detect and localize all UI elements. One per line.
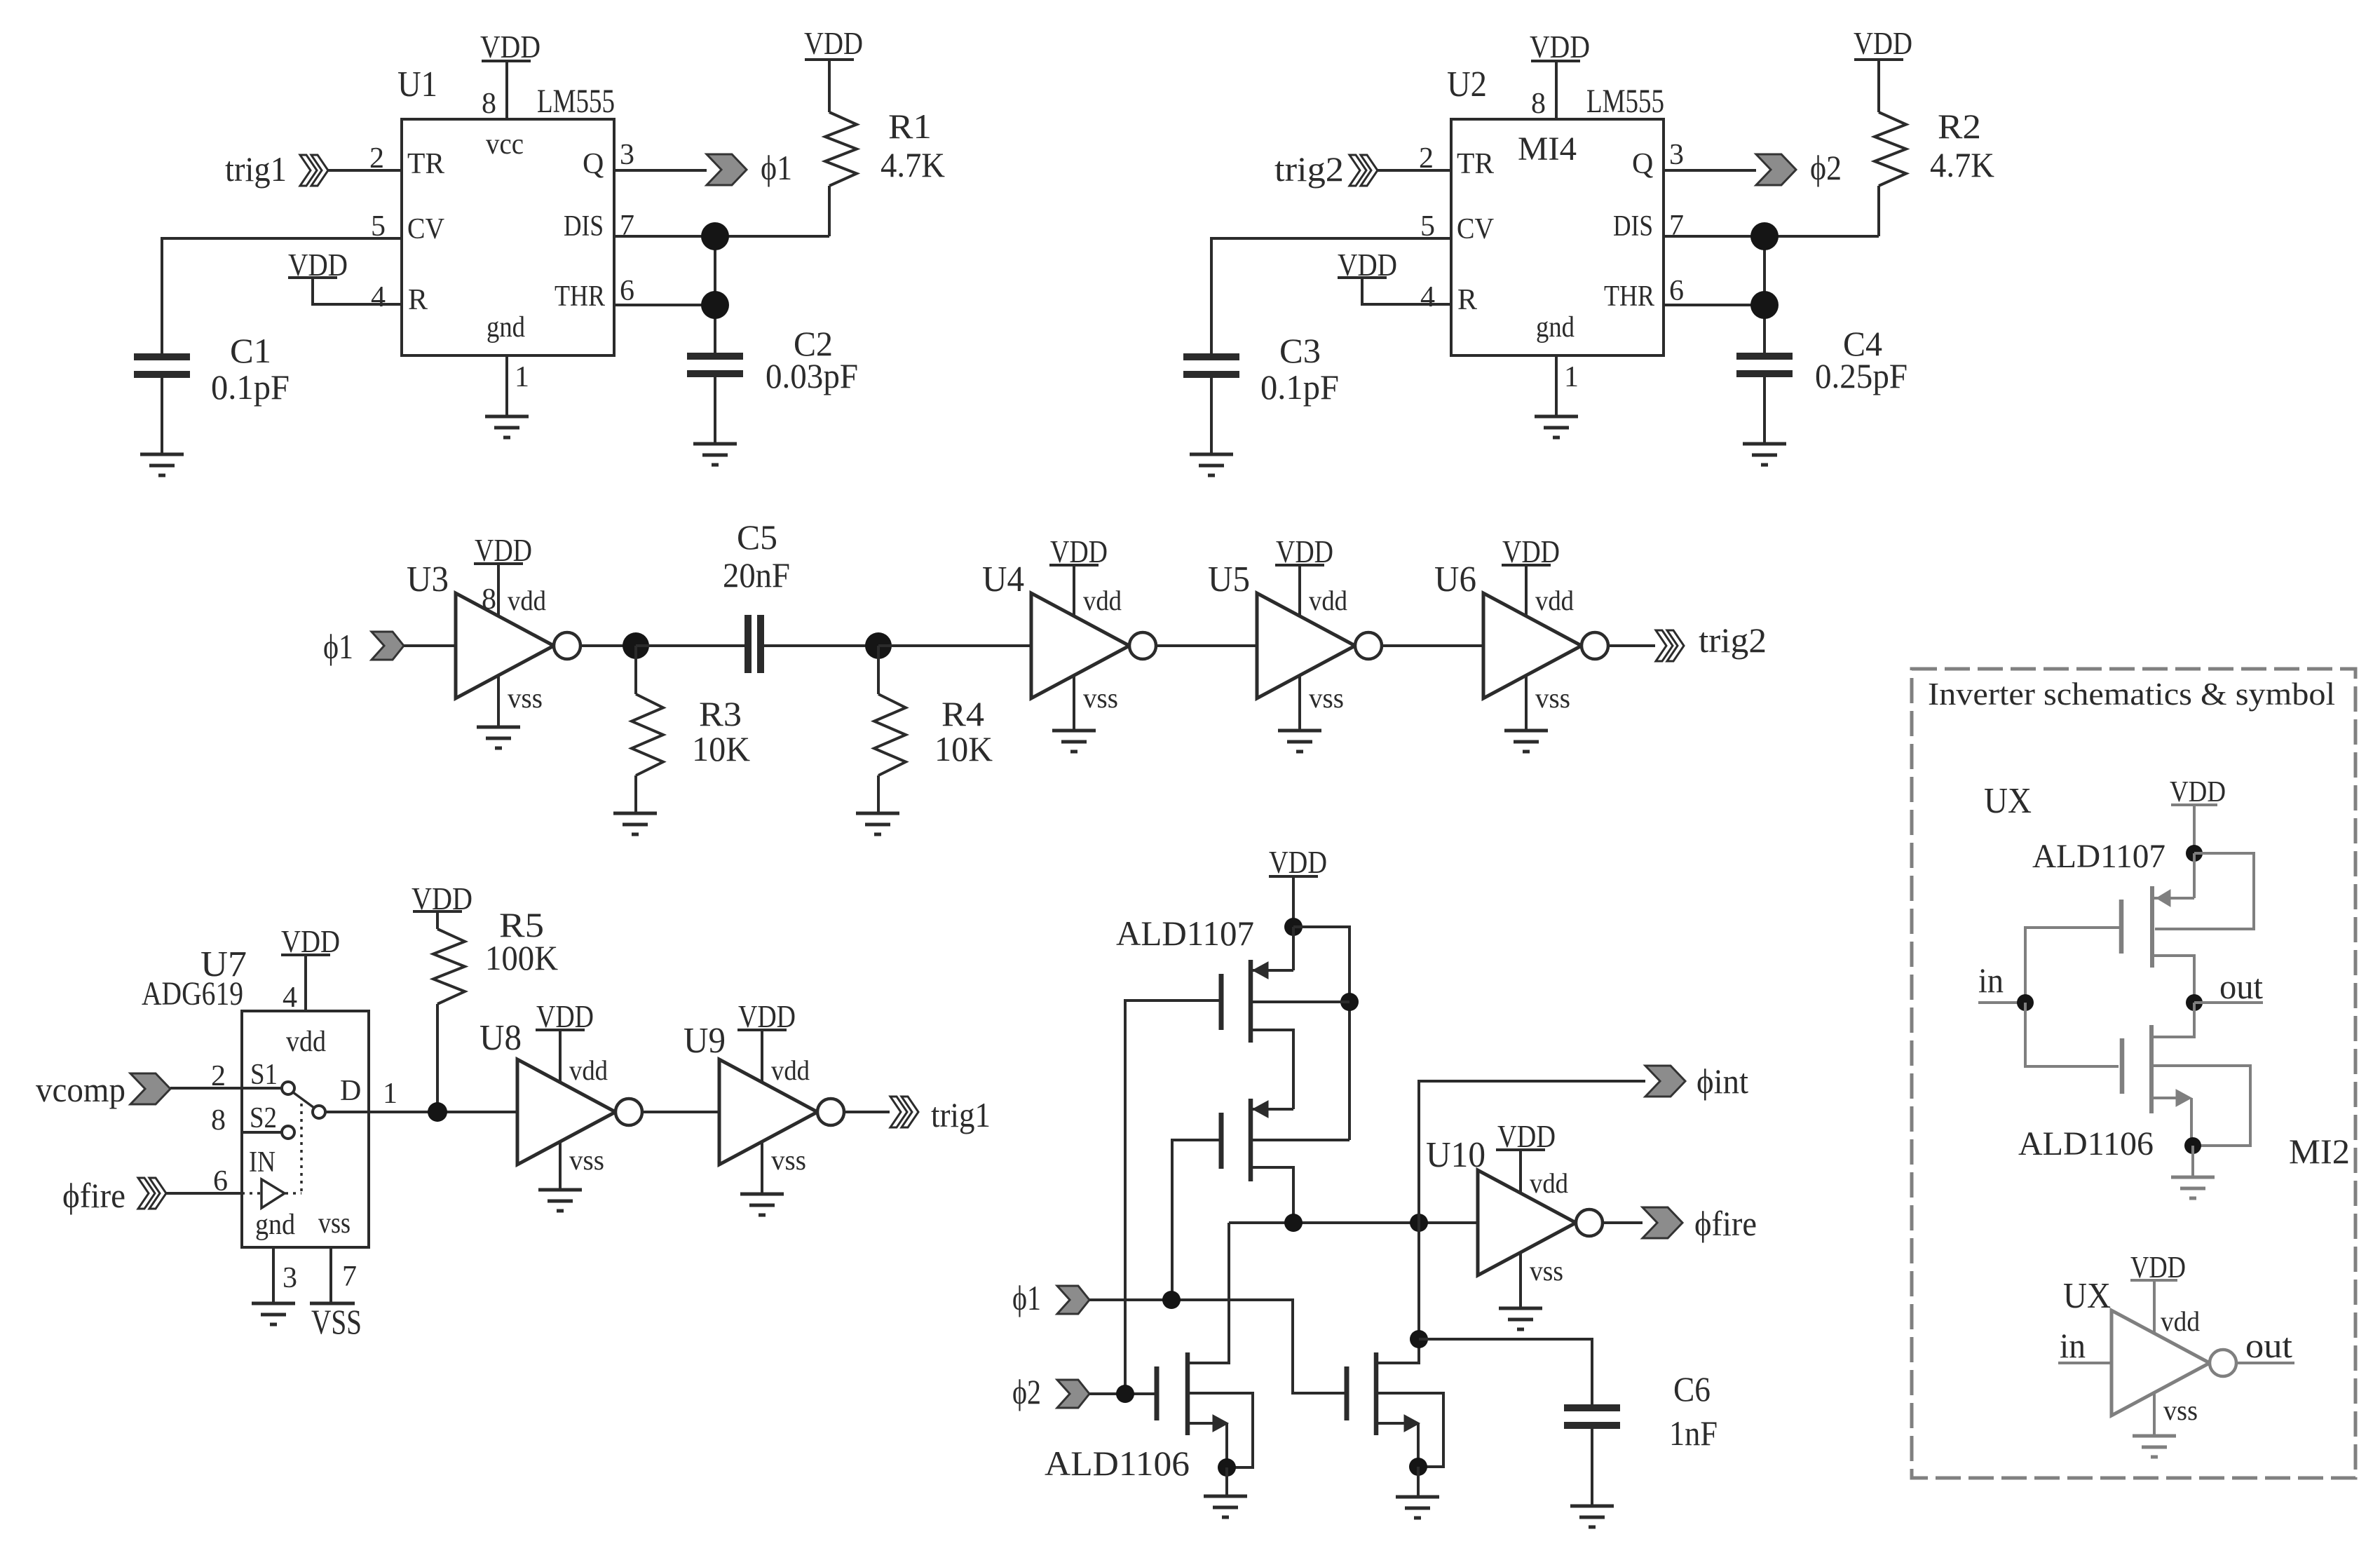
wire D pin 1 to U8 [325, 1111, 517, 1113]
port phifire input chevron [138, 1178, 166, 1209]
wire vss pin (U4) [1073, 675, 1075, 731]
label LM555 [537, 83, 615, 120]
power VDD (U9) [737, 998, 796, 1034]
label ALD1106 [1045, 1444, 1190, 1483]
svg-text:R2: R2 [1938, 107, 1981, 146]
inverter U4 [1031, 593, 1156, 698]
label ALD1107 [1116, 914, 1254, 953]
pin number 8 [1531, 88, 1546, 120]
wire C2 to ground [714, 377, 716, 444]
capacitor C5 [748, 615, 761, 673]
svg-text:VDD: VDD [1276, 534, 1333, 569]
transistor M2 gate bar [1219, 1113, 1224, 1169]
svg-text:8: 8 [482, 88, 496, 120]
pin number 2 [211, 1060, 226, 1092]
svg-text:U9: U9 [684, 1021, 726, 1061]
transistor M1 ALD1107 channel [1249, 960, 1253, 1043]
wire vdd pin (UX symbol) [2153, 1280, 2156, 1334]
wire U7 vss pin 7 [329, 1247, 332, 1302]
svg-text:C3: C3 [1279, 331, 1321, 370]
port vcomp input arrow [130, 1073, 170, 1104]
wire VDD node to bulk rail [1293, 927, 1349, 1140]
wire THR pin 6 [614, 304, 715, 306]
svg-text:1: 1 [1564, 361, 1579, 393]
ground (U8) [538, 1190, 582, 1211]
wire in (symbol) [2058, 1362, 2112, 1364]
svg-text:ϕfire: ϕfire [1694, 1204, 1757, 1243]
wire C3 to ground [1210, 374, 1213, 454]
transistor M2 source lead [1253, 1101, 1293, 1118]
transistor M1 bulk lead [1253, 1000, 1349, 1003]
svg-text:1: 1 [515, 361, 529, 393]
svg-text:vdd: vdd [569, 1054, 608, 1086]
svg-text:vss: vss [1309, 682, 1344, 714]
wire in [1978, 1001, 2025, 1004]
port trig1 input chevron [300, 155, 328, 186]
label MI2 [2289, 1132, 2350, 1171]
ground UX schematic [2171, 1177, 2215, 1198]
wire out [2194, 1001, 2263, 1004]
ground (U9) [740, 1194, 784, 1215]
capacitor C4 [1736, 352, 1793, 374]
IC U2 LM555 box [1451, 119, 1664, 355]
pin name vdd (symbol) [2161, 1305, 2200, 1337]
transistor UX-N gate bar [2120, 1038, 2125, 1094]
svg-text:VDD: VDD [281, 923, 340, 959]
pin name IN [249, 1146, 276, 1179]
pin number 8 [482, 583, 496, 616]
pin number 3 [283, 1262, 297, 1294]
svg-text:VDD: VDD [1338, 247, 1397, 283]
svg-text:trig2: trig2 [1274, 149, 1344, 189]
svg-text:VDD: VDD [412, 881, 472, 916]
wire vss pin (U8) [559, 1141, 562, 1190]
pin number 4 [283, 982, 297, 1014]
svg-text:Q: Q [583, 148, 604, 180]
transistor M2 drain lead [1253, 1167, 1293, 1223]
label C1 [230, 331, 271, 370]
inverter U10 [1478, 1170, 1603, 1275]
svg-text:C6: C6 [1673, 1369, 1711, 1409]
ground U7 pin 3 [252, 1303, 295, 1324]
svg-text:ALD1107: ALD1107 [2032, 838, 2165, 875]
port &#981;1 output arrow [707, 154, 747, 185]
svg-text:7: 7 [342, 1261, 357, 1293]
junction node VDD [1284, 918, 1303, 936]
svg-text:CV: CV [1457, 213, 1494, 245]
junction node out UX [2186, 994, 2203, 1011]
value R3 10K [692, 729, 750, 768]
ground (U3) [477, 727, 520, 748]
wire DIS pin 7 to R1 branch [1664, 235, 1879, 238]
net label trig2 (output) [1699, 620, 1767, 660]
label R4 [941, 694, 984, 733]
value 4.7K [880, 145, 945, 184]
wire trig to TR pin 2 [328, 169, 402, 172]
net label trig1 (output) [931, 1095, 991, 1134]
svg-text:2: 2 [369, 142, 384, 175]
svg-text:VDD: VDD [2170, 776, 2226, 808]
power VDD (U3) [474, 532, 532, 568]
svg-text:vss: vss [1530, 1255, 1563, 1287]
junction node phi2-gate [1116, 1385, 1134, 1403]
value 0.1pF [1260, 367, 1339, 407]
label VSS [311, 1302, 362, 1341]
svg-text:in: in [2060, 1326, 2086, 1365]
wire U10 to phifire port [1603, 1221, 1643, 1224]
wire DIS pin 7 to R1 branch [614, 235, 829, 238]
label R2 [1938, 107, 1981, 146]
inverter U5 [1257, 593, 1382, 698]
svg-text:ADG619: ADG619 [142, 975, 243, 1012]
pin number 1 [515, 361, 529, 393]
svg-text:U1: U1 [397, 65, 437, 104]
junction node D-R5 [428, 1102, 447, 1122]
junction node THR [1750, 291, 1779, 319]
transistor M1 drain lead [1253, 1030, 1293, 1109]
pin name vdd (U9) [771, 1054, 810, 1086]
label R3 [699, 694, 742, 733]
switch lever [293, 1092, 314, 1108]
svg-text:ϕint: ϕint [1696, 1061, 1748, 1101]
svg-text:0.25pF: 0.25pF [1815, 356, 1908, 395]
ground under R4 [856, 813, 899, 834]
svg-text:ϕfire: ϕfire [62, 1176, 125, 1215]
port trig2 input chevron [1349, 155, 1378, 186]
net label vcomp [36, 1070, 125, 1109]
power VDD (charge pump) [1269, 844, 1327, 880]
svg-text:U6: U6 [1434, 559, 1476, 599]
svg-text:U5: U5 [1208, 559, 1250, 599]
junction node B [865, 632, 892, 659]
power VDD (U7 pin 4) [281, 923, 340, 959]
switch contact S1 [282, 1082, 294, 1094]
wire VDD to U7 vdd [304, 955, 307, 1011]
pin number 5 [1420, 210, 1435, 243]
wire UX-N to ground [2191, 1146, 2194, 1177]
label R5 [499, 905, 544, 944]
svg-text:10K: 10K [692, 729, 750, 768]
svg-text:vdd: vdd [771, 1054, 810, 1086]
wire phi2 line [1089, 1392, 1155, 1395]
svg-text:8: 8 [211, 1104, 226, 1137]
resistor R3 [632, 646, 663, 813]
label U5 [1208, 559, 1250, 599]
svg-text:DIS: DIS [564, 210, 604, 243]
resistor R4 [874, 646, 906, 813]
svg-text:LM555: LM555 [1586, 83, 1664, 120]
wire U9 to trig1 port [844, 1111, 890, 1113]
label U9 [684, 1021, 726, 1061]
transistor UX-N bulk lead [2154, 1090, 2191, 1146]
inverter U3 [456, 593, 580, 698]
IC U1 LM555 box [402, 119, 614, 355]
pin number 7 [342, 1261, 357, 1293]
label C3 [1279, 331, 1321, 370]
wire node A to C5 [636, 644, 744, 647]
port phi2 input arrow (pump) [1057, 1380, 1089, 1408]
port &#981;2 output arrow [1756, 154, 1796, 185]
wire in to N gate [2025, 1003, 2119, 1066]
svg-text:vdd: vdd [508, 585, 546, 616]
pin name DIS [564, 210, 604, 243]
svg-text:R4: R4 [941, 694, 984, 733]
svg-text:VDD: VDD [536, 998, 594, 1034]
power VDD (pin 8 U1) [480, 29, 540, 65]
label U10 [1426, 1135, 1485, 1175]
capacitor C6 [1564, 1408, 1620, 1425]
wire DIS-THR junction to cap [1763, 236, 1766, 352]
svg-text:ALD1107: ALD1107 [1116, 914, 1254, 953]
value 4.7K [1930, 145, 1994, 184]
pin name vss (U7) [318, 1207, 351, 1240]
wire CV pin 5 [1211, 238, 1451, 353]
net label in (symbol) [2060, 1326, 2086, 1365]
value 0.25pF [1815, 356, 1908, 395]
svg-text:out: out [2245, 1326, 2292, 1365]
svg-text:vcomp: vcomp [36, 1070, 125, 1109]
pin name vdd (U7) [286, 1026, 326, 1058]
pin name vss (symbol) [2163, 1395, 2198, 1426]
svg-text:vss: vss [569, 1144, 604, 1176]
svg-text:0.1pF: 0.1pF [211, 367, 290, 407]
junction node out-tap [1410, 1214, 1428, 1232]
wire U7 gnd pin 3 [272, 1247, 275, 1303]
transistor UX-P drain lead [2154, 956, 2194, 1003]
pin name vss (U10) [1530, 1255, 1563, 1287]
pin name TR [1457, 148, 1494, 180]
svg-text:100K: 100K [485, 938, 558, 977]
wire M1 gate [1125, 1000, 1221, 1394]
ground under C2 [693, 444, 737, 465]
svg-text:D: D [340, 1075, 361, 1107]
pin number 3 [1669, 139, 1684, 171]
IC U7 ADG619 box [242, 1011, 369, 1247]
wire bulk rail UX [2155, 853, 2254, 929]
pin name vss (U4) [1083, 682, 1118, 714]
label C6 [1673, 1369, 1711, 1409]
power bar VDD (UX symbol) [2130, 1279, 2177, 1282]
svg-text:TR: TR [407, 148, 444, 180]
power VDD (U10) [1496, 1118, 1556, 1154]
wire vss pin (U9) [761, 1141, 763, 1194]
svg-text:2: 2 [211, 1060, 226, 1092]
pin number 4 [1420, 281, 1435, 313]
wire M2 gate [1172, 1140, 1221, 1300]
value 0.03pF [766, 356, 858, 395]
svg-text:vdd: vdd [1309, 585, 1347, 616]
net label out (schematic) [2219, 967, 2263, 1006]
svg-text:in: in [1978, 961, 2004, 1000]
ground under C4 [1743, 444, 1786, 465]
svg-text:ϕ1: ϕ1 [323, 627, 353, 666]
junction node in [2017, 994, 2034, 1011]
wire gnd pin 1 [1555, 355, 1558, 416]
transistor UX-N drain lead [2154, 1003, 2194, 1037]
junction node UX-N bulk [2184, 1137, 2201, 1154]
svg-text:0.1pF: 0.1pF [1260, 367, 1339, 407]
driver triangle IN [261, 1179, 285, 1208]
power VDD (R5) [412, 881, 472, 916]
ground UX symbol [2133, 1436, 2176, 1457]
svg-text:VDD: VDD [1502, 534, 1560, 569]
svg-text:MI4: MI4 [1518, 130, 1577, 168]
transistor M4 source lead [1378, 1393, 1443, 1467]
pin name vss (U5) [1309, 682, 1344, 714]
pin name vss (U8) [569, 1144, 604, 1176]
wire node to NMOS M3 drain [1190, 1223, 1229, 1363]
pin number 7 [620, 210, 634, 242]
power VDD (U6) [1502, 534, 1560, 569]
svg-text:ϕ1: ϕ1 [761, 148, 792, 187]
pin name gnd [1536, 311, 1575, 344]
title Inverter schematics & symbol [1928, 676, 2335, 712]
svg-text:S2: S2 [250, 1102, 277, 1134]
svg-text:2: 2 [1419, 142, 1434, 175]
svg-text:ALD1106: ALD1106 [1045, 1444, 1190, 1483]
port phi1 input arrow (pump) [1057, 1286, 1089, 1314]
net label in (schematic) [1978, 961, 2004, 1000]
svg-text:CV: CV [407, 213, 444, 245]
pin number 3 [620, 139, 634, 171]
pin name Q [583, 148, 604, 180]
svg-text:ALD1106: ALD1106 [2018, 1125, 2154, 1162]
wire C6 tap [1419, 1339, 1592, 1404]
wire vdd pin (U10) [1519, 1150, 1522, 1193]
transistor M1 source lead [1253, 927, 1293, 979]
svg-text:VDD: VDD [288, 247, 348, 283]
junction node DIS [701, 222, 729, 250]
pin number 6 [1669, 275, 1684, 307]
svg-text:3: 3 [1669, 139, 1684, 171]
dotted link IN left [242, 1192, 260, 1195]
svg-text:4.7K: 4.7K [880, 145, 945, 184]
pin name vdd (U4) [1083, 585, 1122, 616]
wire vdd pin (U3) [497, 564, 500, 616]
inverter U9 [719, 1059, 844, 1165]
power VSS bar [310, 1302, 355, 1305]
pin name gnd (U7) [255, 1209, 295, 1241]
svg-text:6: 6 [620, 275, 634, 307]
svg-text:20nF: 20nF [723, 555, 790, 595]
svg-text:R3: R3 [699, 694, 742, 733]
value R4 10K [934, 729, 993, 768]
wire U8 to U9 [642, 1111, 719, 1113]
junction node VDD UX [2186, 845, 2203, 862]
svg-text:3: 3 [283, 1262, 297, 1294]
svg-text:3: 3 [620, 139, 634, 171]
transistor M4 drain lead [1378, 1223, 1419, 1363]
capacitor C2 [687, 352, 743, 374]
label MI4 [1518, 130, 1577, 168]
dashed box inverter schematics [1912, 669, 2355, 1478]
value C6 1nF [1669, 1413, 1718, 1453]
label U1 [397, 65, 437, 104]
wire vdd pin (U5) [1298, 565, 1301, 616]
svg-text:1nF: 1nF [1669, 1413, 1718, 1453]
wire Q pin 3 to phi output [1664, 169, 1756, 172]
pin name vdd (U10) [1530, 1167, 1568, 1199]
pin number 2 [1419, 142, 1434, 175]
svg-text:4: 4 [1420, 281, 1435, 313]
pin name R [408, 284, 428, 316]
power VDD (resistor R2) [1854, 25, 1912, 61]
value R5 100K [485, 938, 558, 977]
svg-text:C1: C1 [230, 331, 271, 370]
svg-text:Q: Q [1632, 148, 1653, 180]
svg-text:vss: vss [1083, 682, 1118, 714]
wire U4 to U5 [1156, 644, 1257, 647]
port phifire output arrow [1643, 1207, 1682, 1238]
net label phi2 (pump) [1012, 1372, 1041, 1411]
transistor M4 ALD1106 channel [1374, 1352, 1379, 1435]
svg-text:U3: U3 [407, 559, 449, 599]
svg-text:8: 8 [1531, 88, 1546, 120]
pin number 6 [213, 1165, 228, 1198]
pin name vss (U6) [1535, 682, 1570, 714]
label LM555 [1586, 83, 1664, 120]
svg-text:THR: THR [1604, 280, 1654, 313]
svg-text:5: 5 [371, 210, 386, 243]
svg-text:1: 1 [383, 1078, 397, 1110]
svg-text:R1: R1 [888, 107, 932, 146]
wire vdd pin (U6) [1525, 565, 1528, 616]
net label phi1 (pump) [1012, 1278, 1041, 1317]
svg-text:vss: vss [2163, 1395, 2198, 1426]
transistor UX-N channel [2149, 1025, 2154, 1113]
power VDD (resistor R1) [804, 25, 863, 61]
svg-text:S1: S1 [250, 1059, 278, 1091]
wire U6 to trig2 port [1608, 644, 1655, 647]
wire UX-P gate [2025, 928, 2121, 1003]
net label &#981;2 [1810, 148, 1842, 187]
pin name S1 [250, 1059, 278, 1091]
power VDD (pin 8 U2) [1530, 29, 1590, 65]
svg-text:UX: UX [1984, 781, 2032, 821]
power VDD (U4) [1049, 534, 1108, 569]
label UX (schematic) [1984, 781, 2032, 821]
transistor UX-P gate bar [2119, 900, 2124, 954]
junction node phi1-gate [1162, 1291, 1181, 1309]
wire trig to TR pin 2 [1378, 169, 1451, 172]
wire vdd pin (U4) [1073, 565, 1075, 616]
svg-text:ϕ1: ϕ1 [1012, 1278, 1041, 1317]
ground M4 [1396, 1497, 1439, 1518]
resistor R2 [1875, 60, 1906, 236]
pin name vdd (U8) [569, 1054, 608, 1086]
svg-text:VDD: VDD [1854, 25, 1912, 61]
pin name vss (U3) [508, 682, 543, 714]
ground (U5) [1278, 731, 1321, 752]
junction node DIS [1750, 222, 1779, 250]
pin name S2 [250, 1102, 277, 1134]
pin number 8 [482, 88, 496, 120]
svg-text:VSS: VSS [311, 1302, 362, 1341]
pin number 1 [1564, 361, 1579, 393]
wire C4 to ground [1763, 377, 1766, 444]
wire vdd pin (U9) [761, 1030, 763, 1083]
transistor M3 source lead [1190, 1393, 1253, 1467]
svg-text:gnd: gnd [1536, 311, 1575, 344]
pin name vcc [486, 128, 524, 161]
svg-text:R: R [1457, 284, 1477, 316]
junction node C6 tap [1410, 1330, 1428, 1348]
svg-text:gnd: gnd [255, 1209, 295, 1241]
ground pin 1 [1535, 416, 1578, 437]
ground under C6 [1570, 1506, 1614, 1527]
wire vcomp to S1 pin 2 [170, 1087, 242, 1090]
pin name vdd (U3) [508, 585, 546, 616]
